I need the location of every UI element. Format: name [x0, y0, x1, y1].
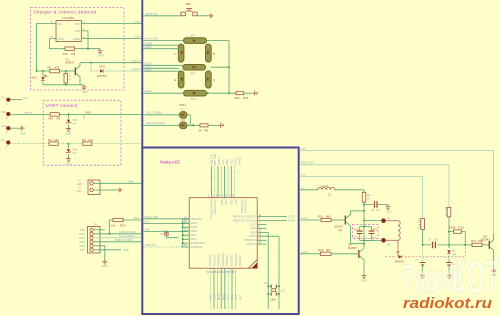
svg-text:GND: GND — [1, 125, 7, 128]
svg-text:C3: C3 — [354, 227, 358, 231]
svg-text:VCC: VCC — [251, 223, 256, 226]
block UART connect — [43, 100, 121, 165]
segment B — [206, 44, 216, 62]
svg-text:SWD: SWD — [79, 233, 85, 236]
wire R14 down — [448, 217, 450, 246]
svg-text:PB6(SCK): PB6(SCK) — [191, 218, 203, 221]
svg-text:750: 750 — [63, 52, 68, 56]
svg-text:120: 120 — [54, 138, 59, 142]
svg-text:B: B — [213, 52, 215, 56]
svg-text:radiokot.ru: radiokot.ru — [403, 295, 492, 312]
wire output node rail — [423, 244, 490, 246]
transistor Q4 BC847 — [481, 234, 494, 269]
LED VD1 — [31, 71, 47, 85]
svg-text:BAT: BAT — [76, 23, 81, 26]
svg-text:KBAT.CHA: KBAT.CHA — [301, 161, 314, 165]
ground — [66, 157, 72, 166]
zener VD4 — [66, 144, 78, 157]
svg-text:4k7: 4k7 — [326, 214, 331, 218]
svg-text:RST: RST — [239, 294, 243, 300]
wire R12 to Q3 base — [331, 253, 359, 255]
svg-text:ADC4(SDA): ADC4(SDA) — [235, 253, 238, 267]
svg-text:MISO: MISO — [221, 293, 225, 300]
display DIS1 — [180, 103, 187, 107]
wire R9 to ground — [208, 124, 219, 126]
svg-text:PA13.SWDIO: PA13.SWDIO — [119, 234, 135, 238]
svg-text:VDD: VDD — [123, 248, 129, 252]
inductor L1 — [318, 184, 335, 197]
svg-text:PC6(RST): PC6(RST) — [239, 255, 242, 267]
ground — [491, 268, 497, 277]
MCU bottom inside names — [209, 253, 242, 267]
diode VD8 — [447, 245, 456, 257]
watermark logo — [402, 250, 499, 303]
svg-text:SCL: SCL — [230, 294, 234, 300]
svg-text:vbat: vbat — [135, 20, 140, 24]
svg-text:PWR.LD.SWO: PWR.LD.SWO — [115, 238, 133, 242]
wire PROG to resistor — [50, 39, 100, 49]
svg-text:VIN+/LCDA: VIN+/LCDA — [145, 215, 159, 219]
svg-text:VBA: VBA — [128, 179, 134, 183]
segment F — [175, 44, 184, 62]
svg-text:C4: C4 — [373, 227, 377, 231]
svg-text:GND: GND — [208, 294, 212, 300]
svg-text:10k: 10k — [111, 224, 116, 228]
svg-text:OSC/LED_RED: OSC/LED_RED — [146, 121, 165, 125]
svg-text:VD6: VD6 — [180, 119, 185, 122]
svg-text:chrg: chrg — [135, 35, 141, 39]
svg-text:SWO: SWO — [79, 241, 85, 244]
svg-text:4u7: 4u7 — [376, 209, 381, 212]
MCU bottom wire labels — [208, 293, 242, 300]
svg-text:BC847: BC847 — [481, 238, 490, 242]
svg-text:R15: R15 — [459, 226, 465, 230]
svg-text:SDA: SDA — [234, 294, 238, 300]
wire L1 to R6 — [335, 190, 364, 193]
svg-text:SCK: SCK — [226, 294, 230, 300]
svg-text:VD2: VD2 — [100, 65, 106, 69]
svg-text:F: F — [175, 52, 177, 56]
svg-text:GND: GND — [98, 55, 104, 58]
ground — [19, 126, 26, 136]
junction — [36, 70, 67, 72]
svg-text:VIN: VIN — [57, 23, 61, 26]
svg-text:VCC: VCC — [221, 159, 225, 165]
svg-text:3v3: 3v3 — [72, 123, 77, 126]
resistor R13 220k — [418, 218, 424, 230]
svg-text:VCC: VCC — [225, 199, 228, 204]
svg-text:PC6(RESET): PC6(RESET) — [191, 242, 206, 245]
diode VD2 BAT54 — [98, 65, 107, 78]
ground — [447, 274, 452, 279]
svg-text:PB7.SDA: PB7.SDA — [213, 153, 217, 165]
svg-text:360: 360 — [48, 117, 53, 121]
ground — [66, 126, 72, 135]
svg-text:1R: 1R — [367, 198, 370, 201]
svg-text:RX2: RX2 — [1, 111, 6, 114]
svg-text:BC847: BC847 — [66, 61, 75, 65]
svg-text:TXD: TXD — [213, 295, 217, 300]
wire main vertical — [363, 202, 365, 245]
svg-text:SWCLK.PA14: SWCLK.PA14 — [119, 230, 136, 234]
svg-text:R9: R9 — [205, 129, 209, 133]
button SB1 — [181, 2, 197, 16]
segment E — [175, 71, 184, 88]
svg-text:PB7(XTAL2): PB7(XTAL2) — [245, 199, 248, 213]
resistor R9 1k — [199, 124, 209, 133]
MCU top pin wires — [210, 166, 212, 198]
svg-text:UART connect: UART connect — [46, 103, 79, 108]
svg-text:ADC5(SCL): ADC5(SCL) — [230, 253, 233, 266]
LED VD5 green — [143, 108, 187, 118]
net label RD1 — [82, 110, 92, 119]
svg-text:VCC: VCC — [235, 199, 238, 204]
segment D — [184, 90, 207, 100]
segment C — [206, 71, 216, 88]
wire segA feed — [143, 37, 184, 41]
ground — [253, 91, 258, 96]
wire battery to box — [105, 179, 142, 183]
svg-text:GND: GND — [75, 30, 81, 33]
svg-text:vdd: vdd — [301, 147, 306, 151]
svg-text:R5: R5 — [72, 52, 76, 56]
wire battery minus — [105, 189, 117, 191]
wire box-left feeds — [144, 215, 190, 219]
svg-text:GND: GND — [66, 132, 72, 135]
resistor R2 360 — [48, 113, 61, 121]
svg-text:GND: GND — [225, 159, 229, 165]
wire segE feed — [143, 68, 179, 72]
svg-text:L1: L1 — [328, 192, 332, 196]
resistor R6 — [362, 192, 371, 202]
crystal ZQ1 — [264, 282, 286, 302]
wire button to ground — [197, 15, 208, 17]
svg-text:100k: 100k — [449, 226, 456, 230]
capacitor C8 — [446, 258, 456, 273]
svg-text:R18: R18 — [243, 96, 249, 100]
svg-text:PB3(MOSI): PB3(MOSI) — [218, 253, 221, 266]
svg-text:PD1(TXD): PD1(TXD) — [213, 255, 216, 267]
MCU right pin names — [233, 216, 256, 247]
svg-text:BATT.SW: BATT.SW — [146, 12, 158, 16]
svg-text:PD3(OC2B/INT1): PD3(OC2B/INT1) — [210, 199, 213, 219]
resistor R3 120 — [48, 138, 59, 145]
LED VD6 red — [143, 119, 187, 129]
block Charger & connect detector — [31, 8, 125, 91]
capacitor C5 — [364, 201, 388, 212]
svg-text:PD0(RXD): PD0(RXD) — [191, 246, 203, 249]
svg-text:LED.G: LED.G — [217, 157, 221, 165]
svg-text:GND: GND — [20, 133, 26, 136]
svg-text:Charger & connect detector: Charger & connect detector — [34, 9, 98, 14]
wire pwm2 from box — [300, 250, 321, 254]
MCU top pin numbers — [208, 194, 235, 197]
svg-text:100n: 100n — [160, 233, 166, 236]
svg-text:DIS1: DIS1 — [180, 103, 187, 107]
svg-text:R2: R2 — [57, 117, 61, 121]
svg-text:LEDD: LEDD — [145, 89, 152, 93]
svg-text:SB1: SB1 — [186, 2, 192, 6]
MCU bottom pin numbers — [207, 271, 236, 274]
wire LCDB — [266, 218, 295, 222]
wire bottom rail y84.8 — [43, 84, 84, 86]
svg-text:vin: vin — [301, 186, 305, 190]
svg-text:GND: GND — [80, 245, 86, 248]
transistor T1 BC847 — [66, 57, 81, 84]
connector X1 battery — [77, 180, 105, 195]
svg-text:AVCC: AVCC — [191, 222, 198, 225]
svg-text:4k7 R14: 4k7 R14 — [445, 206, 448, 216]
resistor R14 4k7 — [445, 206, 451, 217]
connector pad P1 — [1, 96, 28, 106]
capacitor C10 — [160, 230, 179, 238]
svg-text:VD8: VD8 — [190, 35, 195, 38]
svg-text:220k R13: 220k R13 — [418, 218, 421, 229]
svg-text:R1: R1 — [48, 65, 52, 69]
wire R13 to node — [422, 230, 424, 246]
svg-text:uart_tx: uart_tx — [24, 110, 33, 114]
wire Q3 collector rail — [351, 244, 365, 249]
svg-text:bat.tps: bat.tps — [132, 67, 141, 71]
svg-text:LEDE: LEDE — [145, 68, 152, 72]
svg-text:PB5(SCK): PB5(SCK) — [226, 255, 229, 267]
MCU left pin stubs — [181, 216, 189, 247]
svg-text:R4: R4 — [82, 138, 86, 142]
ground — [98, 49, 104, 58]
svg-text:1n3: 1n3 — [354, 236, 359, 239]
wire segD feed — [143, 89, 184, 93]
svg-text:R10: R10 — [120, 224, 126, 228]
wire segF feed — [143, 45, 179, 49]
svg-text:MOSI: MOSI — [217, 293, 221, 300]
IC U1 LTC4054 — [50, 16, 86, 41]
svg-text:XTAL1: XTAL1 — [233, 156, 237, 165]
ground — [102, 259, 108, 268]
svg-text:PB6(XTAL1): PB6(XTAL1) — [241, 199, 244, 213]
svg-text:VIN+/LCDA: VIN+/LCDA — [145, 37, 159, 41]
svg-text:RST: RST — [81, 229, 86, 232]
svg-text:VCC: VCC — [80, 249, 85, 252]
svg-text:vcc: vcc — [301, 173, 306, 176]
svg-text:VD10: VD10 — [190, 98, 197, 101]
svg-text:PB6.SCL: PB6.SCL — [209, 153, 213, 165]
svg-text:Q2: Q2 — [339, 228, 343, 232]
bus — [141, 0, 143, 148]
svg-text:PB5(SCK): PB5(SCK) — [244, 239, 256, 242]
svg-text:VD5: VD5 — [180, 108, 185, 111]
svg-text:LED_GREEN: LED_GREEN — [146, 110, 162, 114]
svg-text:CHRG: CHRG — [73, 38, 80, 41]
svg-text:LEDB: LEDB — [145, 41, 152, 45]
svg-text:4k7: 4k7 — [326, 248, 331, 252]
resistor R7 vertical — [64, 71, 72, 85]
wire VIN vertical — [37, 24, 50, 71]
svg-text:AREF: AREF — [191, 230, 198, 233]
svg-text:PB7(XTAL1/TOSC1): PB7(XTAL1/TOSC1) — [233, 216, 256, 219]
module Nucleo L432 frame — [142, 148, 298, 315]
svg-text:pwm2: pwm2 — [301, 250, 309, 254]
svg-text:R11: R11 — [318, 214, 323, 218]
svg-text:RX1: RX1 — [1, 140, 6, 143]
wire SWD rows — [93, 229, 105, 231]
svg-text:pwm1: pwm1 — [301, 216, 309, 220]
svg-text:GND: GND — [250, 227, 256, 230]
svg-text:3v3: 3v3 — [72, 152, 77, 155]
svg-text:16M: 16M — [270, 298, 276, 302]
wire pwm1 from box — [300, 216, 322, 220]
svg-text:3v3: 3v3 — [23, 96, 28, 100]
svg-text:360: 360 — [235, 96, 240, 100]
svg-text:R12: R12 — [318, 248, 324, 252]
svg-text:GND: GND — [361, 280, 367, 283]
watermark url — [403, 295, 492, 312]
wire vdd rail — [300, 147, 494, 234]
resistor R17 — [471, 239, 483, 246]
svg-text:GND: GND — [82, 91, 88, 94]
ground — [208, 13, 213, 18]
MCU bottom pin wires — [209, 268, 211, 309]
wire segG feed — [143, 62, 183, 66]
ground — [420, 274, 425, 279]
svg-text:BAT54: BAT54 — [98, 74, 107, 78]
svg-text:Nucleo L432: Nucleo L432 — [160, 160, 181, 165]
svg-text:LCDC: LCDC — [288, 215, 295, 219]
svg-text:SWC: SWC — [79, 237, 85, 240]
svg-text:10uH: 10uH — [321, 184, 328, 188]
svg-text:RD1: RD1 — [86, 110, 92, 114]
ground — [219, 123, 224, 128]
svg-text:LCDB: LCDB — [288, 218, 295, 222]
capacitors C3 C4 block — [353, 225, 379, 241]
wire CHRG to bus — [86, 35, 142, 39]
svg-text:GND: GND — [66, 163, 72, 166]
resistor R12 4k7 — [318, 248, 331, 255]
connector J2 SWD — [79, 224, 100, 254]
svg-text:-BAT: -BAT — [77, 190, 83, 193]
svg-text:PD2(INT0): PD2(INT0) — [209, 254, 212, 266]
ground — [361, 274, 367, 283]
svg-text:ADC7: ADC7 — [191, 238, 198, 241]
transistor Q2 BC807 — [335, 211, 365, 244]
wire segment common right — [206, 41, 237, 95]
svg-text:GND: GND — [386, 211, 392, 214]
transformer T2 coil — [386, 221, 400, 257]
svg-text:GND: GND — [191, 234, 197, 237]
connector pad P2 — [1, 110, 50, 120]
wire R18 to ground — [244, 92, 253, 94]
svg-text:PD5(T1): PD5(T1) — [246, 243, 256, 246]
crystal lines — [267, 232, 280, 309]
left rail — [182, 219, 190, 247]
svg-text:47k: 47k — [55, 65, 60, 69]
svg-text:PB4(MISO): PB4(MISO) — [222, 253, 225, 266]
svg-text:1k5: 1k5 — [82, 115, 85, 120]
wire BATT.SW — [143, 12, 181, 16]
wire base rail y71 — [37, 70, 76, 72]
MCU top inside names — [210, 199, 247, 219]
svg-text:R3: R3 — [48, 138, 52, 142]
wire vcc rail — [300, 173, 423, 218]
wire emitter rail to bus — [80, 59, 142, 64]
wire segB feed — [143, 41, 179, 45]
MCU right pin stubs — [257, 214, 279, 245]
svg-text:C11: C11 — [264, 282, 269, 285]
svg-text:PROG: PROG — [57, 38, 64, 41]
svg-text:R17: R17 — [471, 239, 477, 243]
svg-text:VCC: VCC — [229, 159, 233, 165]
resistor R10 10k — [109, 216, 141, 234]
svg-text:PD4(XCK/T0): PD4(XCK/T0) — [214, 199, 217, 214]
segment A — [184, 35, 207, 44]
resistor R5 750 — [63, 47, 76, 56]
wire to transformer pads — [364, 220, 381, 240]
svg-text:VD1: VD1 — [31, 76, 37, 80]
svg-text:VDD: VDD — [145, 227, 151, 231]
diode VD7 output dashed — [385, 247, 465, 264]
wire dashed row2 — [58, 143, 142, 145]
svg-text:GND: GND — [231, 199, 234, 205]
svg-text:XP1: XP1 — [94, 224, 99, 227]
svg-text:VD9: VD9 — [190, 73, 195, 76]
transformer T2 pads — [381, 217, 391, 247]
svg-text:C: C — [213, 78, 215, 82]
svg-text:120: 120 — [88, 138, 93, 142]
capacitor C6 — [428, 239, 439, 249]
connector pad P4 — [1, 140, 49, 149]
svg-text:ADC6: ADC6 — [249, 235, 256, 238]
transistor Q3 BC847 — [348, 243, 364, 274]
svg-text:PB6(XTAL2/TOSC2): PB6(XTAL2/TOSC2) — [233, 219, 256, 222]
ground — [386, 205, 392, 214]
svg-text:E: E — [175, 78, 177, 82]
junction — [87, 48, 89, 50]
wire vin — [300, 186, 319, 190]
wire LCDC — [266, 215, 295, 219]
svg-text:ADC6: ADC6 — [191, 226, 198, 229]
wire R11 to Q2 base — [331, 219, 345, 221]
connector pad P3 — [1, 125, 19, 134]
svg-text:GND: GND — [250, 231, 256, 234]
wire bat.cha rail — [300, 161, 450, 208]
resistor R15 100k — [449, 226, 465, 245]
resistor R18 360 — [235, 92, 249, 100]
svg-text:GND: GND — [102, 265, 108, 268]
segment G — [183, 65, 206, 76]
svg-text:VDD: VDD — [133, 216, 139, 220]
svg-text:4u7: 4u7 — [434, 239, 439, 242]
svg-text:GND: GND — [221, 199, 224, 205]
resistor R11 4k7 — [318, 214, 331, 221]
ground — [117, 188, 122, 193]
svg-text:D4: D4 — [396, 250, 400, 254]
zener VD3 — [66, 114, 78, 126]
svg-text:TX2: TX2 — [1, 97, 6, 100]
resistor R4 120 — [82, 138, 93, 145]
MCU U2 — [189, 198, 257, 269]
wire LEDs to R9 — [187, 115, 200, 126]
ground — [82, 85, 88, 94]
svg-text:ZQ1: ZQ1 — [281, 290, 286, 293]
svg-text:LTC4054: LTC4054 — [63, 16, 75, 20]
svg-text:VCC: VCC — [145, 220, 151, 224]
svg-text:UART.RX: UART.RX — [145, 243, 157, 247]
wire BAT to bus — [81, 20, 142, 24]
svg-text:BC847: BC847 — [348, 246, 357, 250]
resistor R1 47k — [48, 65, 60, 73]
svg-text:uart.sw: uart.sw — [131, 59, 140, 63]
svg-text:XTAL2: XTAL2 — [237, 156, 241, 165]
wire GND pin down — [86, 31, 88, 49]
